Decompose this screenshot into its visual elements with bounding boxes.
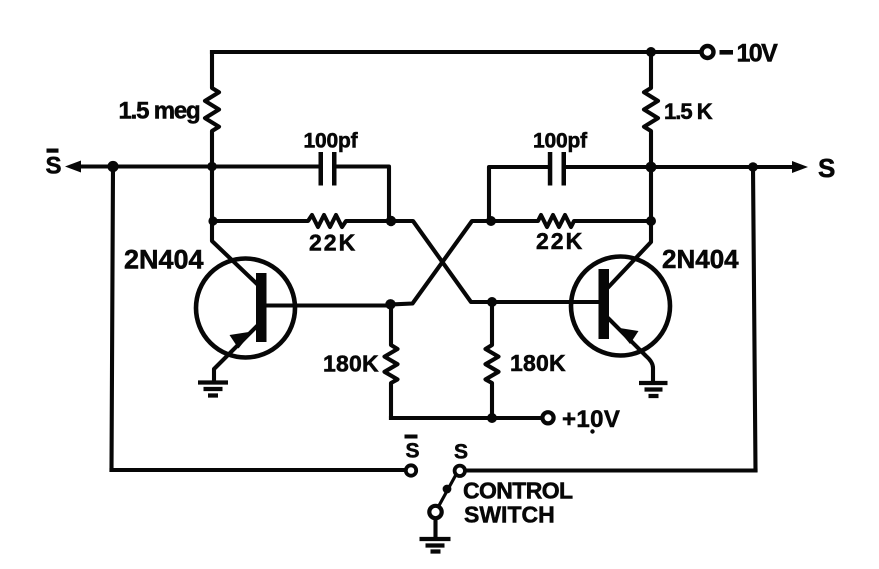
svg-text:22K: 22K xyxy=(536,228,584,254)
svg-text:22K: 22K xyxy=(309,230,357,256)
svg-text:2N404: 2N404 xyxy=(124,245,204,275)
svg-text:10V: 10V xyxy=(737,40,779,68)
svg-text:+10V: +10V xyxy=(562,406,620,433)
svg-text:180K: 180K xyxy=(323,351,379,377)
svg-text:SWITCH: SWITCH xyxy=(464,502,555,528)
svg-text:S: S xyxy=(46,153,62,180)
svg-text:2N404: 2N404 xyxy=(662,244,739,274)
svg-text:S: S xyxy=(818,153,835,183)
svg-text:S: S xyxy=(406,440,420,463)
svg-text:1.5 K: 1.5 K xyxy=(664,99,713,124)
svg-text:1.5 meg: 1.5 meg xyxy=(119,98,201,125)
svg-text:100pf: 100pf xyxy=(533,130,588,153)
svg-text:100pf: 100pf xyxy=(304,130,359,153)
svg-text:CONTROL: CONTROL xyxy=(463,478,573,504)
svg-text:180K: 180K xyxy=(510,350,566,376)
svg-text:S: S xyxy=(454,441,468,464)
